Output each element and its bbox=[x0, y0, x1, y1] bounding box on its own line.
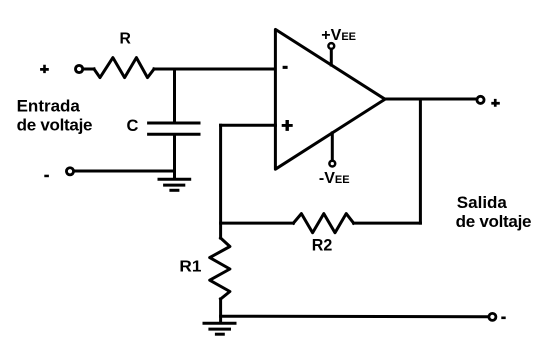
wire output bbox=[385, 98, 476, 101]
op-amp pin plus bbox=[282, 120, 293, 131]
svg-text:Salida: Salida bbox=[457, 193, 508, 212]
power -VEE terminal bbox=[329, 161, 335, 167]
wire bbox=[219, 299, 222, 322]
label - input negative bbox=[44, 175, 49, 178]
op-amp pin minus bbox=[283, 66, 288, 69]
svg-text:R1: R1 bbox=[179, 259, 201, 276]
svg-text:Entrada: Entrada bbox=[17, 96, 81, 115]
resistor R bbox=[94, 58, 154, 78]
wire bbox=[84, 68, 94, 71]
power +VEE terminal bbox=[328, 43, 334, 49]
label + input positive bbox=[40, 65, 49, 73]
resistor R1 bbox=[210, 238, 230, 299]
input terminal minus bbox=[66, 168, 73, 175]
wire node vertical bbox=[219, 125, 222, 238]
power -VEE stub bbox=[331, 133, 334, 160]
power +VEE stub bbox=[330, 50, 333, 66]
svg-text:de voltaje: de voltaje bbox=[17, 115, 93, 134]
wire feedback vertical bbox=[419, 99, 422, 223]
op-amp U1 bbox=[275, 29, 385, 169]
wire bbox=[154, 68, 275, 71]
wire bbox=[173, 69, 176, 122]
output terminal minus bbox=[489, 313, 496, 320]
label - output negative bbox=[501, 317, 505, 320]
output terminal plus bbox=[477, 96, 484, 103]
ground bbox=[159, 179, 190, 190]
ground bbox=[204, 323, 235, 334]
wire bbox=[354, 222, 421, 225]
svg-text:-VEE: -VEE bbox=[319, 170, 350, 187]
input terminal plus bbox=[76, 65, 83, 72]
capacitor C bbox=[149, 123, 199, 134]
wire bbox=[75, 170, 175, 173]
svg-text:+VEE: +VEE bbox=[321, 27, 356, 44]
svg-text:de voltaje: de voltaje bbox=[456, 212, 532, 231]
svg-text:R2: R2 bbox=[312, 237, 333, 255]
svg-text:R: R bbox=[120, 31, 132, 48]
label + output positive bbox=[491, 99, 500, 107]
wire bbox=[221, 124, 276, 127]
wire bbox=[173, 136, 176, 179]
svg-text:C: C bbox=[127, 117, 139, 135]
wire bottom bbox=[221, 315, 488, 319]
wire bbox=[221, 222, 294, 225]
resistor R2 bbox=[293, 214, 353, 233]
